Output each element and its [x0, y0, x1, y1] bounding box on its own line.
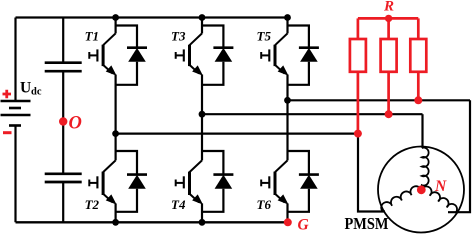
wire T4 collector drop from phase node	[201, 114, 203, 160]
wire resistor R1 bottom lead	[357, 72, 360, 134]
wire T4 emitter to bottom rail	[201, 203, 203, 222]
diode D3 (freewheeling)	[213, 48, 233, 62]
svg-text:U: U	[20, 80, 31, 97]
junction dot T4 emitter on bottom rail	[199, 219, 206, 226]
resistor R1 (braking resistor)	[350, 39, 366, 72]
wire T5 collector drop	[286, 18, 288, 34]
svg-text:T1: T1	[85, 29, 99, 44]
winding phase A (lower-left coil)	[379, 184, 421, 211]
wire diode D1 top branch	[116, 26, 137, 48]
wire T5 emitter to output node	[286, 75, 288, 101]
battery Udc plate 2 (short)	[9, 107, 21, 110]
wire top DC rail	[16, 16, 288, 18]
wire diode D5 bottom branch	[288, 62, 309, 85]
junction dot T5 collector on top rail	[284, 14, 291, 21]
diode D4 (freewheeling)	[213, 175, 233, 189]
label - (battery negative)	[3, 131, 12, 134]
wire phase A to motor (down + right)	[358, 134, 385, 212]
wire T6 emitter to bottom rail	[286, 203, 288, 222]
wire diode D3 bottom branch	[202, 62, 223, 85]
wire left DC bus vertical (bottom)	[14, 126, 16, 223]
wire resistor R3 bottom lead	[417, 72, 420, 101]
transistor T2 (IGBT)	[89, 160, 115, 203]
transistor T1 (IGBT)	[89, 33, 115, 74]
battery Udc plate 4 (short, -)	[9, 124, 21, 127]
motor PMSM stator circle	[378, 147, 464, 233]
node N (star point dot)	[417, 185, 426, 194]
wire left DC bus vertical (top)	[14, 18, 16, 101]
resistor R2 (braking resistor)	[381, 39, 397, 72]
wire capacitor branch (rail to C1)	[62, 18, 64, 63]
wire T2 emitter to bottom rail	[114, 203, 116, 222]
wire C1 to C2 (through node O)	[62, 72, 64, 173]
junction dot T1 collector on top rail	[112, 14, 119, 21]
node O (DC-link midpoint dot)	[59, 117, 67, 125]
wire diode D1 bottom branch	[116, 62, 137, 85]
diode D2 (freewheeling)	[127, 175, 147, 189]
svg-text:O: O	[69, 113, 82, 133]
winding phase B (vertical coil)	[421, 148, 428, 190]
svg-text:PMSM: PMSM	[345, 214, 389, 233]
capacitor C1 (upper DC-link)	[45, 63, 82, 71]
wire resistor R3 top lead	[417, 18, 420, 39]
node phase B junction dot	[199, 111, 206, 118]
junction dot T3 collector on top rail	[199, 14, 206, 21]
wire diode D6 bottom branch	[288, 189, 309, 212]
wire T3 emitter to output node	[201, 75, 203, 115]
battery Udc plate 3 (long)	[1, 114, 31, 117]
wire phase C horizontal	[288, 99, 471, 101]
wire phase C to motor (down + left)	[448, 100, 470, 212]
svg-text:N: N	[434, 178, 447, 195]
transistor T3 (IGBT)	[176, 33, 202, 74]
wire T1 emitter to output node	[114, 75, 116, 134]
svg-text:dc: dc	[31, 87, 42, 98]
transistor T5 (IGBT)	[261, 33, 287, 74]
wire T3 collector drop	[201, 18, 203, 34]
wire diode D2 bottom branch	[116, 189, 137, 212]
wire diode D2 top branch	[116, 151, 137, 175]
node resistor R2 to phase junction dot	[385, 110, 393, 118]
wire phase A horizontal	[116, 133, 358, 135]
wire diode D4 bottom branch	[202, 189, 223, 212]
diode D6 (freewheeling)	[299, 175, 319, 189]
diode D5 (freewheeling)	[299, 48, 319, 62]
capacitor C2 (lower DC-link)	[45, 174, 82, 182]
svg-text:T2: T2	[85, 197, 100, 212]
wire resistor R2 top lead	[387, 18, 390, 39]
wire bottom DC rail	[16, 221, 288, 223]
label + (battery positive)	[3, 90, 12, 98]
svg-text:T4: T4	[171, 197, 186, 212]
transistor T6 (IGBT)	[261, 160, 287, 203]
node phase A junction dot	[112, 130, 119, 137]
transistor T4 (IGBT)	[176, 160, 202, 203]
svg-text:T6: T6	[257, 197, 272, 212]
wire T2 collector drop from phase node	[114, 134, 116, 161]
wire resistor R1 top lead	[357, 18, 360, 39]
wire diode D6 top branch	[288, 151, 309, 175]
svg-text:G: G	[298, 217, 310, 234]
node resistor R3 to phase junction dot	[414, 96, 422, 104]
winding phase C (lower-right coil)	[421, 184, 459, 213]
battery Udc plate 1 (long, +)	[1, 100, 31, 103]
node G (bottom rail end dot)	[284, 218, 292, 226]
svg-text:R: R	[383, 0, 394, 15]
svg-text:T5: T5	[257, 29, 272, 44]
wire resistor R2 bottom lead	[387, 72, 390, 114]
wire T6 collector drop from phase node	[286, 100, 288, 160]
node resistor R1 to phase junction dot	[354, 130, 362, 138]
wire diode D4 top branch	[202, 151, 223, 175]
node phase C junction dot	[284, 97, 291, 104]
wire phase B horizontal	[202, 113, 423, 115]
diode D1 (freewheeling)	[127, 48, 147, 62]
resistor R3 (braking resistor)	[410, 39, 426, 72]
node R (dot on resistor bus)	[385, 15, 392, 22]
wire diode D3 top branch	[202, 26, 223, 48]
wire diode D5 top branch	[288, 26, 309, 48]
wire T1 collector drop	[114, 18, 116, 34]
junction dot T2 emitter on bottom rail	[112, 219, 119, 226]
wire phase B to motor (down)	[421, 114, 423, 148]
wire red resistor top bus	[358, 17, 418, 20]
wire C2 to bottom rail	[62, 183, 64, 223]
svg-text:T3: T3	[171, 29, 186, 44]
